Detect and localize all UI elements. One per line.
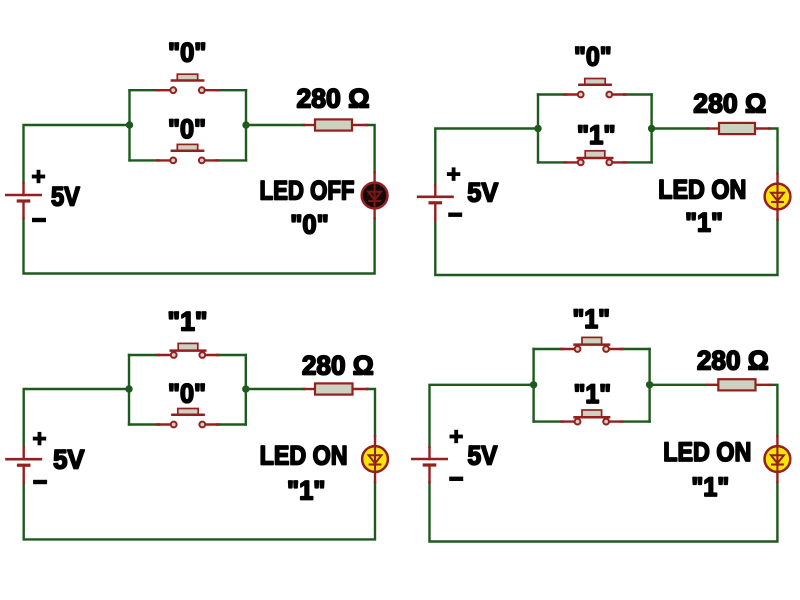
pushbutton input A (open) xyxy=(565,79,626,98)
resistor 280 ohm xyxy=(304,383,367,394)
wire: battery positive to left corner and across to left junction xyxy=(24,389,129,447)
wire: top branch xyxy=(538,93,566,95)
wire: parallel-branch right vertical xyxy=(245,90,247,160)
svg-text:280 Ω: 280 Ω xyxy=(693,89,766,119)
junction node (right) xyxy=(648,125,655,132)
wire: bottom return loop (battery negative, bottom rail, up to LED cathode) xyxy=(24,482,375,539)
wire: right junction to resistor xyxy=(650,384,708,386)
label + (battery positive) xyxy=(33,432,46,445)
svg-text:"1": "1" xyxy=(574,379,611,409)
svg-text:"0": "0" xyxy=(168,38,207,68)
circuit 3: A=1 B=0 LED on xyxy=(5,306,388,539)
battery 5V voltage source xyxy=(417,185,454,221)
wire: parallel-branch left vertical xyxy=(532,349,534,422)
pushbutton input B (open) xyxy=(157,144,218,163)
pushbutton input A (closed) xyxy=(561,337,622,352)
wire: right junction to resistor xyxy=(246,124,304,126)
label - (battery negative) xyxy=(448,213,462,217)
svg-text:280 Ω: 280 Ω xyxy=(697,345,769,375)
svg-text:LED ON: LED ON xyxy=(663,437,751,467)
svg-text:280 Ω: 280 Ω xyxy=(302,350,374,380)
circuit 2: A=0 B=1 LED on xyxy=(417,42,791,275)
wire: bottom return loop (battery negative, bottom rail, up to LED cathode) xyxy=(430,482,778,542)
wire: bottom branch xyxy=(534,420,563,422)
svg-text:"0": "0" xyxy=(168,114,206,144)
wire: resistor to right corner, down to LED anode xyxy=(770,385,777,436)
svg-text:LED OFF: LED OFF xyxy=(260,175,355,205)
svg-text:"0": "0" xyxy=(168,378,206,408)
svg-text:"1": "1" xyxy=(691,472,729,502)
wire: parallel-branch right vertical xyxy=(245,355,247,425)
svg-text:"1": "1" xyxy=(287,475,326,505)
pushbutton input B (closed) xyxy=(561,410,622,425)
wire: parallel-branch right vertical xyxy=(648,349,650,422)
junction node (left) xyxy=(530,381,537,388)
pushbutton input A (open) xyxy=(157,74,218,93)
svg-text:280 Ω: 280 Ω xyxy=(297,83,370,113)
wire: battery positive to left corner and across to left junction xyxy=(435,129,538,185)
resistor 280 ohm xyxy=(707,379,770,390)
svg-text:5V: 5V xyxy=(53,444,84,474)
wire: battery positive to left corner and across to left junction xyxy=(24,125,130,183)
wire: resistor to right corner, down to LED anode xyxy=(770,129,778,174)
wire: right junction to resistor xyxy=(246,388,304,390)
resistor 280 ohm xyxy=(304,119,367,130)
wire: parallel-branch left vertical xyxy=(128,90,130,160)
wire: parallel-branch right vertical xyxy=(650,95,652,163)
wire: resistor to right corner, down to LED anode xyxy=(367,389,375,436)
wire: bottom branch xyxy=(538,161,566,163)
wire: bottom return loop (battery negative, bottom rail, up to LED cathode) xyxy=(24,219,375,274)
circuit 4: A=1 B=1 LED on xyxy=(411,304,790,542)
LED indicator (on) xyxy=(765,436,791,482)
wire: resistor to right corner, down to LED anode xyxy=(367,125,375,173)
LED indicator (on) xyxy=(362,436,388,482)
svg-text:"0": "0" xyxy=(290,209,329,239)
pushbutton input A (closed) xyxy=(158,343,219,358)
wire: right junction to resistor xyxy=(652,127,708,129)
pushbutton input B (open) xyxy=(158,409,219,428)
svg-text:5V: 5V xyxy=(468,440,498,470)
battery 5V voltage source xyxy=(5,447,42,483)
svg-text:"1": "1" xyxy=(168,306,208,336)
svg-text:"1": "1" xyxy=(572,304,610,334)
label - (battery negative) xyxy=(32,218,46,222)
svg-text:LED ON: LED ON xyxy=(260,440,348,470)
battery 5V voltage source xyxy=(5,183,42,219)
circuit 1: A=0 B=0 LED off xyxy=(5,38,388,274)
label + (battery positive) xyxy=(447,167,460,180)
junction node (right) xyxy=(646,381,653,388)
label + (battery positive) xyxy=(450,430,463,443)
wire: bottom return loop (battery negative, bottom rail, up to LED cathode) xyxy=(435,220,777,276)
pushbutton input B (closed) xyxy=(565,151,626,166)
wire: top branch xyxy=(129,354,159,356)
wire: parallel-branch left vertical xyxy=(128,355,130,425)
junction node (left) xyxy=(534,125,541,132)
svg-text:5V: 5V xyxy=(51,181,80,211)
svg-text:"1": "1" xyxy=(685,208,723,238)
label + (battery positive) xyxy=(32,170,45,183)
svg-text:5V: 5V xyxy=(467,178,498,208)
junction node (left) xyxy=(125,385,132,392)
battery 5V voltage source xyxy=(411,447,448,483)
wire: bottom branch xyxy=(130,159,159,161)
label - (battery negative) xyxy=(449,477,463,481)
wire: parallel-branch left vertical xyxy=(537,95,539,163)
label - (battery negative) xyxy=(33,480,47,484)
junction node (right) xyxy=(242,385,249,392)
junction node (right) xyxy=(242,121,249,128)
svg-text:"0": "0" xyxy=(574,42,612,72)
LED indicator (off) xyxy=(362,173,388,219)
LED indicator (on) xyxy=(765,174,791,220)
resistor 280 ohm xyxy=(708,123,770,134)
wire: top branch xyxy=(130,89,159,91)
svg-text:"1": "1" xyxy=(577,120,616,150)
wire: top branch xyxy=(534,348,563,350)
wire: bottom branch xyxy=(129,423,159,425)
junction node (left) xyxy=(126,121,133,128)
wire: battery positive to left corner and across to left junction xyxy=(430,385,534,447)
svg-text:LED ON: LED ON xyxy=(658,175,746,205)
